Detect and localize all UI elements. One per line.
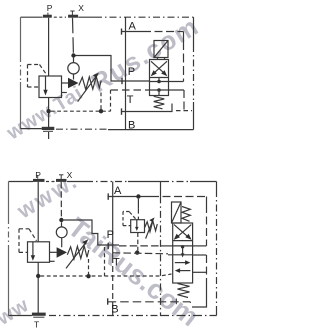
main valve lower right stub [62,92,67,94]
port X symbol [68,11,78,16]
port P symbol [43,13,52,17]
node pilot drain junction [99,109,103,113]
valve block left boundary [125,17,127,129]
wire A riser dashed [183,32,185,82]
solenoid valve blocked port stubs [157,78,161,96]
port X label [78,3,84,13]
directional valve V2 crossed arrows [174,225,192,240]
block 2 label T [113,257,120,269]
wire spring end to B line [175,299,177,305]
block label B [128,120,135,132]
port X2 label [67,170,73,180]
module 2 boundary left edge [8,182,10,316]
pilot valve PV1 poppet [68,78,79,89]
mini relief valve RV body [131,220,145,233]
svg-text:T: T [34,320,39,330]
node tank junction 2 [36,274,40,278]
port A tick [121,29,123,35]
port X2 symbol [56,175,67,181]
directional valve V2 top spring [182,207,190,222]
pilot spring chamber drain dashed 2 [88,259,90,274]
pilot line X vertical (dashed) [72,18,75,54]
svg-text:B: B [128,120,135,132]
port T tick [121,108,123,114]
port P label [47,3,53,13]
wire through valve P level [150,81,184,83]
wire T line [122,104,173,112]
pilot valve PV2 poppet [57,247,67,258]
main valve MV2 flow arrow [31,242,35,261]
wire mini relief feed [137,199,139,220]
pilot drain dashed line horizontal [51,110,111,112]
svg-text:X: X [67,170,73,180]
solenoid valve V1 solenoid [154,41,168,60]
watermark band 3 [12,168,83,224]
tank port bar 2 [32,314,46,317]
svg-text:T: T [127,94,134,106]
main valve MV1 body [39,76,62,98]
inner separation dash-dot [160,182,162,316]
wire main valve to pilot valve [62,82,69,84]
mini relief adjustment arrow [146,217,155,238]
watermark band 4 [0,294,33,331]
pilot control dashed bracket [28,65,48,88]
svg-text:A: A [129,21,137,33]
svg-text:X: X [78,3,84,13]
watermark band 2 [62,211,205,331]
block 2 label B [111,304,118,316]
svg-text:P: P [47,3,53,13]
block 2 label P [107,229,114,241]
wire through valve level P [173,245,193,247]
orifice O2 circle [56,227,67,238]
wire main valve 2 to pilot valve 2 [50,251,57,253]
svg-text:P: P [107,229,114,241]
pilot valve PV2 spring [67,246,89,259]
pilot valve PV2 adjustment arrow [66,239,88,268]
module 1 boundary left edge [20,17,22,128]
wire T2 dashed to valve [113,253,168,254]
directional valve V2 center links [181,245,185,257]
wire P to valve [122,80,150,82]
wire through orifice 2 [61,222,63,247]
solenoid valve V1 return spring [154,96,165,109]
port B2 tick [107,298,109,304]
directional valve V2 divider [173,240,193,242]
directional valve V2 solenoid [172,202,182,223]
pilot line X2 vertical dashed [60,182,62,218]
right ladder riser dashed lower [192,255,207,307]
mini relief dashed bracket [123,212,136,226]
svg-text:T: T [113,257,120,269]
vent-drain link dashed [104,247,106,276]
wire B2 dashed [108,302,192,306]
port A2 tick [107,193,109,199]
port P2 label [35,170,41,180]
pilot control dashed bracket 2 [19,229,37,253]
orifice O1 circle [68,63,79,74]
wire drain down right side dashed [183,90,185,111]
node X2 junction [59,218,63,222]
block label A [129,21,137,33]
drain to valve dashed [111,89,150,91]
directional valve V2 body [173,223,193,283]
mini relief drain dashed [137,233,139,251]
right ladder rung 3 [193,271,207,273]
wire through valve level T [168,254,193,256]
node tank junction [46,109,50,113]
node pilot drain junction 2 [86,274,90,278]
right ladder riser dashed upper [206,197,208,246]
svg-text:P: P [128,66,135,78]
main valve MV2 body [28,242,50,262]
svg-text:A: A [114,185,122,197]
svg-text:B: B [111,304,118,316]
node mini relief drain junction [135,250,139,254]
port T2 label [34,320,39,330]
wire P2 dashed to valve [119,245,173,247]
module 1 boundary right edge [193,17,195,129]
drain dashed line 2 [40,274,171,276]
mini relief spring [145,221,158,232]
port P2 tick [107,243,109,249]
right ladder rung 2 [193,254,207,256]
watermark band 1 [2,10,204,144]
node X junction [71,53,75,57]
drain riser dashed [110,90,112,111]
wire through valve T level [150,89,185,91]
block label T [127,94,134,106]
module 1 boundary bottom edge [21,129,194,130]
module 2 boundary right edge [216,182,218,316]
solenoid valve V1 divider [150,77,169,79]
right ladder rung 1 [193,245,207,247]
directional valve V2 flow arrows [175,260,191,273]
tank port bar [42,128,55,131]
block label P [128,66,135,78]
solenoid valve V1 crossed arrows [151,61,168,76]
directional valve V2 bottom spring [178,284,190,298]
wire A line [122,31,184,33]
wire P2 supply vertical [37,182,39,242]
module 2 boundary top edge [9,181,217,183]
block 2 label A [114,185,122,197]
wire A2 line [108,196,206,198]
wire vent line to valve block [76,56,123,82]
tank stub below [48,132,50,139]
mini relief valve RV arrow [135,220,139,231]
module 2 boundary bottom edge [9,315,217,317]
wire below main valve to tank [48,98,50,128]
wire P supply vertical [48,18,50,76]
module 1 boundary top edge [21,16,194,18]
node A2 junction [136,194,140,198]
port P2 symbol [33,175,45,180]
wire below main valve 2 [37,262,39,313]
pilot valve PV1 adjustment arrow [78,73,99,102]
port P tick [121,78,123,84]
solenoid valve V1 body [150,60,169,96]
main valve MV1 flow arrow [43,76,47,96]
pilot spring chamber drain dashed [100,93,102,110]
pilot valve PV1 spring [79,77,101,90]
wire through orifice [73,58,75,80]
valve block 2 left boundary [112,182,114,316]
wire vent line jog to block [64,220,119,245]
drain dashes near spring [176,110,192,112]
main valve 2 lower right stub [50,260,55,262]
